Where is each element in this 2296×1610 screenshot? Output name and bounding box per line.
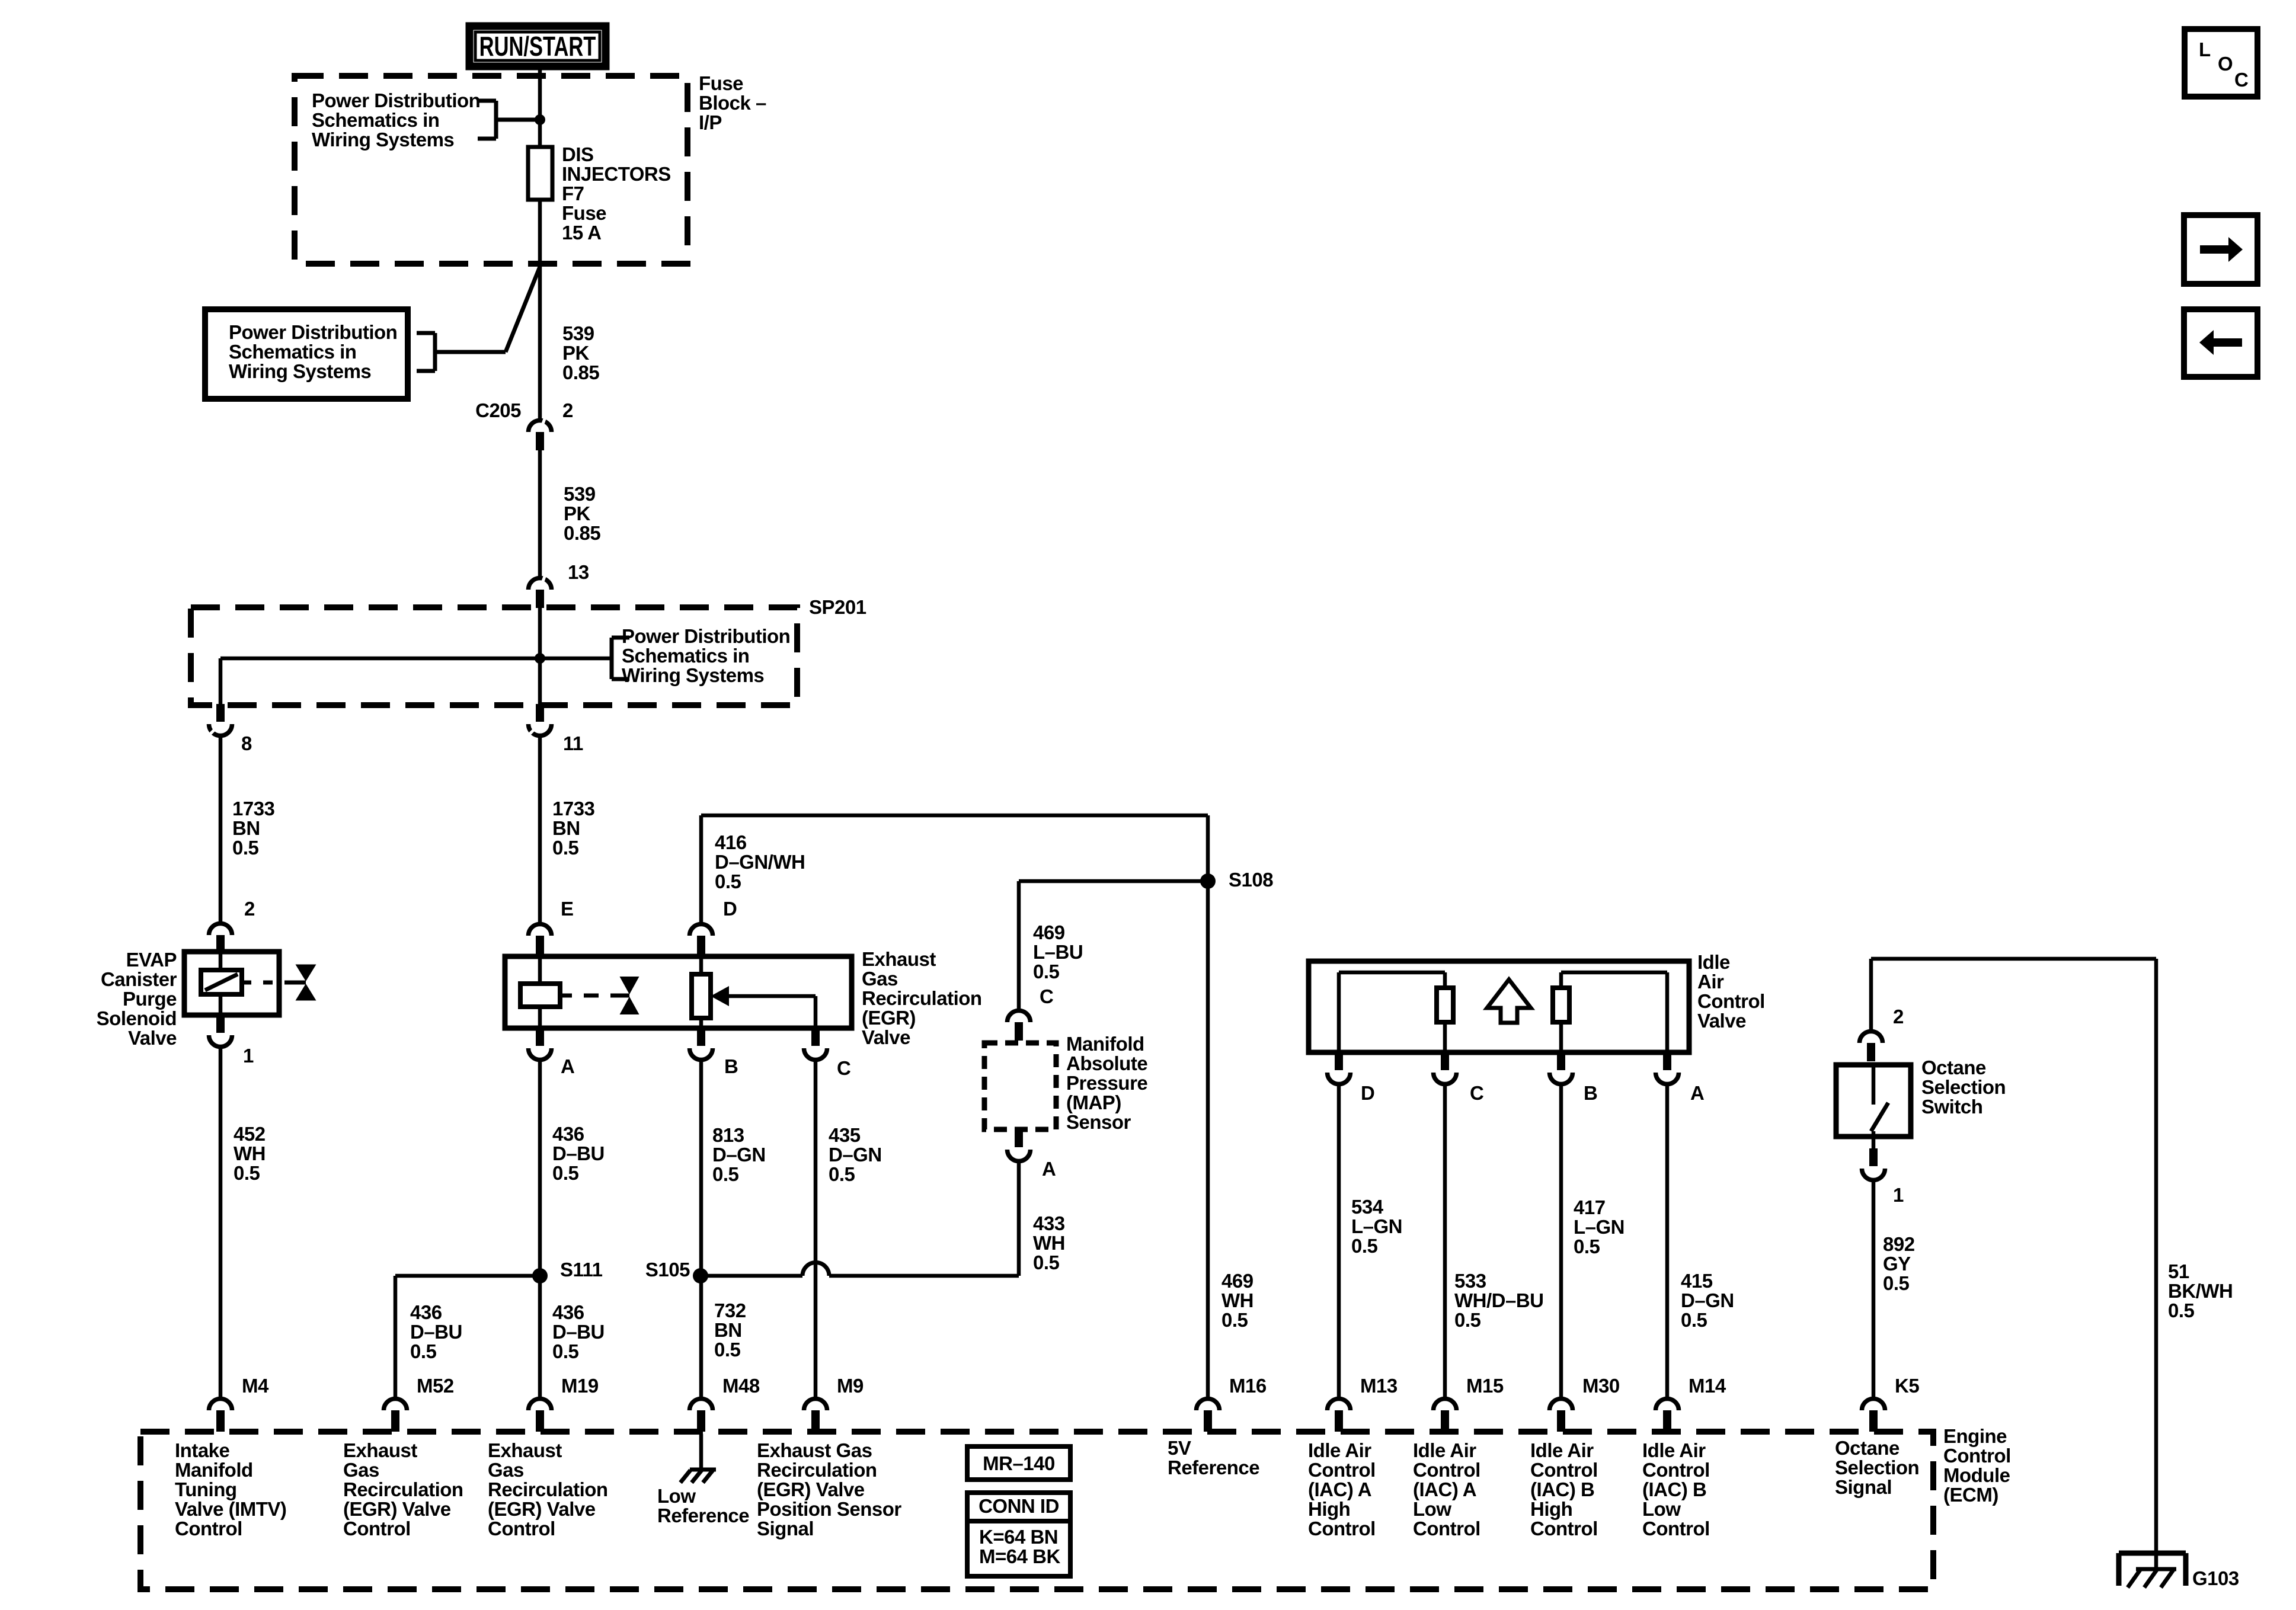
junction S111: [532, 1259, 603, 1283]
wire: circuit 415 D-GN (IAC A to M14): [1665, 1085, 1670, 1397]
svg-text:Canister: Canister: [101, 968, 177, 990]
svg-text:0.85: 0.85: [564, 522, 600, 544]
svg-text:0.5: 0.5: [1033, 1251, 1060, 1273]
ground G103: [2119, 1553, 2239, 1589]
svg-text:High: High: [1308, 1498, 1350, 1520]
svg-text:8: 8: [241, 732, 252, 754]
connector ECM pin M30: [1550, 1375, 1620, 1432]
svg-text:433: 433: [1033, 1212, 1065, 1234]
label: EVAP Canister Purge Solenoid Valve: [97, 949, 177, 1049]
label: circuit 416 D-GN/WH 0.5: [715, 831, 805, 892]
svg-text:Control: Control: [1413, 1459, 1480, 1481]
junction S108: [1200, 869, 1273, 891]
svg-text:(MAP): (MAP): [1066, 1092, 1121, 1113]
wire: circuit 469 L-BU (S108 to MAP C): [1019, 881, 1208, 1009]
wire: RUN/START to fuse F7: [538, 68, 542, 148]
svg-text:416: 416: [715, 831, 747, 853]
svg-text:Valve: Valve: [128, 1027, 177, 1049]
svg-text:D: D: [1361, 1082, 1374, 1104]
svg-text:PK: PK: [562, 342, 590, 364]
label: circuit 892 GY 0.5: [1883, 1233, 1915, 1294]
wire: EGR A continues to M19: [538, 1276, 542, 1397]
wire: circuit 1733 BN (right leg): [538, 737, 542, 922]
svg-text:Power Distribution: Power Distribution: [229, 321, 397, 343]
svg-text:539: 539: [564, 483, 596, 505]
svg-text:533: 533: [1454, 1270, 1486, 1292]
svg-text:732: 732: [714, 1299, 746, 1321]
svg-text:0.5: 0.5: [712, 1163, 739, 1185]
svg-text:Recirculation: Recirculation: [488, 1478, 608, 1500]
svg-text:0.5: 0.5: [1221, 1309, 1248, 1331]
svg-text:Low: Low: [1413, 1498, 1451, 1520]
label: IAC B High Control: [1530, 1439, 1598, 1539]
svg-text:0.5: 0.5: [715, 870, 741, 892]
EVAP valve symbol (hourglass): [242, 965, 316, 1001]
connector ECM pin M16: [1197, 1375, 1267, 1432]
svg-text:15 A: 15 A: [562, 222, 601, 244]
wire: circuit 469 WH (S108 to M16): [1206, 881, 1210, 1397]
svg-text:E: E: [561, 898, 574, 920]
svg-text:2: 2: [1893, 1006, 1904, 1028]
label: circuit 813 D-GN 0.5: [712, 1124, 766, 1185]
connector ECM pin M13: [1328, 1375, 1398, 1432]
svg-text:Exhaust: Exhaust: [862, 948, 936, 970]
note: Power Distribution Schematics (fuse block): [312, 89, 540, 151]
svg-text:INJECTORS: INJECTORS: [562, 163, 671, 185]
svg-text:Control: Control: [1308, 1459, 1376, 1481]
svg-text:K=64 BN: K=64 BN: [979, 1526, 1058, 1548]
connector MAP pin C: [1008, 985, 1054, 1041]
idle air control valve (component box): [1309, 961, 1689, 1052]
svg-text:1733: 1733: [552, 798, 595, 820]
connector SP201 pin 8: [209, 704, 252, 754]
svg-text:(IAC) B: (IAC) B: [1642, 1478, 1706, 1500]
svg-text:F7: F7: [562, 183, 584, 204]
IAC coil B (resistor): [1553, 972, 1667, 1052]
svg-text:SP201: SP201: [809, 596, 866, 618]
power feed tag RUN/START: [469, 26, 606, 66]
svg-text:K5: K5: [1895, 1375, 1919, 1397]
svg-text:Control: Control: [1530, 1459, 1598, 1481]
splice pack SP201 enclosure (dashed): [191, 607, 797, 705]
svg-text:DIS: DIS: [562, 143, 594, 165]
svg-text:452: 452: [234, 1123, 266, 1145]
svg-text:0.5: 0.5: [714, 1339, 741, 1361]
svg-text:WH/D–BU: WH/D–BU: [1454, 1289, 1544, 1311]
connector IAC pin A: [1656, 1052, 1705, 1104]
wire: circuit 533 WH/D-BU (IAC C to M15): [1443, 1085, 1447, 1397]
wire: circuit 417 L-GN (IAC B to M30): [1559, 1085, 1563, 1397]
svg-text:0.85: 0.85: [562, 361, 599, 383]
label: IAC A High Control: [1308, 1439, 1376, 1539]
svg-text:WH: WH: [1033, 1232, 1065, 1254]
svg-text:Power Distribution: Power Distribution: [622, 625, 790, 647]
label: Manifold Absolute Pressure (MAP) Sensor: [1066, 1033, 1147, 1133]
svg-text:0.5: 0.5: [232, 837, 259, 859]
svg-text:Idle Air: Idle Air: [1308, 1439, 1371, 1461]
svg-text:BN: BN: [714, 1319, 742, 1341]
svg-text:Signal: Signal: [1835, 1476, 1892, 1498]
svg-text:Idle Air: Idle Air: [1530, 1439, 1594, 1461]
svg-text:O: O: [2218, 53, 2233, 75]
ECM internal: low reference ground: [680, 1434, 716, 1483]
svg-text:Sensor: Sensor: [1066, 1111, 1131, 1133]
svg-text:Exhaust: Exhaust: [343, 1439, 417, 1461]
label: DIS INJECTORS F7 Fuse 15 A: [562, 143, 671, 244]
label: Intake Manifold Tuning Valve (IMTV) Control: [175, 1439, 286, 1539]
svg-text:Exhaust: Exhaust: [488, 1439, 562, 1461]
svg-text:Control: Control: [175, 1518, 242, 1539]
svg-text:436: 436: [552, 1123, 584, 1145]
svg-text:I/P: I/P: [699, 111, 722, 133]
svg-text:Idle Air: Idle Air: [1642, 1439, 1706, 1461]
svg-text:Control: Control: [1642, 1459, 1710, 1481]
wire: circuit 892 GY (octane to K5): [1872, 1181, 1876, 1397]
svg-text:(EGR): (EGR): [862, 1007, 916, 1029]
MAP sensor (dashed component box): [984, 1043, 1056, 1129]
connector pin 13 (fuse block to SP201): [529, 561, 589, 608]
svg-text:WH: WH: [1221, 1289, 1253, 1311]
svg-text:B: B: [724, 1055, 738, 1077]
wire: circuit 452 WH (EVAP to M4): [219, 1048, 223, 1397]
EVAP solenoid coil: [201, 953, 242, 1015]
svg-text:0.5: 0.5: [552, 837, 579, 859]
svg-text:1: 1: [243, 1045, 254, 1067]
svg-text:(EGR) Valve: (EGR) Valve: [343, 1498, 451, 1520]
svg-text:D–GN: D–GN: [829, 1144, 882, 1166]
svg-text:Schematics in: Schematics in: [312, 109, 439, 131]
svg-text:High: High: [1530, 1498, 1572, 1520]
connector EGR pin B: [690, 1028, 738, 1077]
svg-text:M14: M14: [1689, 1375, 1726, 1397]
label: circuit 732 BN 0.5: [714, 1299, 746, 1361]
wire: circuit 436 D-BU branch (S111 to M52): [395, 1276, 540, 1397]
EGR valve (component box): [505, 956, 852, 1028]
svg-text:C: C: [1470, 1082, 1483, 1104]
label: circuit 436 D-BU 0.5 (M19 leg): [552, 1301, 605, 1362]
svg-text:Wiring Systems: Wiring Systems: [312, 129, 454, 151]
label: circuit 435 D-GN 0.5: [829, 1124, 882, 1185]
svg-text:Power Distribution: Power Distribution: [312, 89, 480, 111]
svg-text:Low: Low: [657, 1485, 696, 1507]
engine control module ECM enclosure (dashed): [140, 1432, 1933, 1589]
wire: circuit 534 L-GN (IAC D to M13): [1337, 1085, 1341, 1397]
connector EGR pin E: [529, 898, 574, 954]
svg-text:A: A: [561, 1055, 574, 1077]
svg-text:S108: S108: [1229, 869, 1273, 891]
connector ECM pin M15: [1434, 1375, 1504, 1432]
svg-text:Reference: Reference: [1168, 1457, 1259, 1478]
svg-text:892: 892: [1883, 1233, 1915, 1255]
wire: circuit 416 D-GN/WH (D up and across): [701, 815, 1208, 922]
wire: fuse to C205: [538, 200, 542, 418]
svg-text:Recirculation: Recirculation: [343, 1478, 463, 1500]
svg-text:436: 436: [410, 1301, 442, 1323]
svg-text:Control: Control: [343, 1518, 411, 1539]
label: circuit 417 L-GN 0.5: [1574, 1196, 1625, 1257]
svg-text:Schematics in: Schematics in: [229, 341, 356, 363]
EGR solenoid coil: [520, 956, 560, 1028]
svg-text:GY: GY: [1883, 1253, 1911, 1275]
connector MAP pin A: [1008, 1129, 1056, 1180]
label: Octane Selection Signal: [1835, 1437, 1919, 1498]
label: circuit 1733 BN 0.5 (left): [232, 798, 275, 859]
svg-text:(EGR) Valve: (EGR) Valve: [488, 1498, 596, 1520]
wire: circuit 51 BK/WH (to G103): [2154, 959, 2159, 1553]
connector ECM pin M19: [529, 1375, 599, 1432]
wire: circuit 436 D-BU (EGR A to S111): [538, 1061, 542, 1276]
svg-text:D–BU: D–BU: [552, 1142, 605, 1164]
label: circuit 539 PK 0.85 (lower): [564, 483, 600, 544]
svg-text:Control: Control: [1413, 1518, 1480, 1539]
connector ECM pin M52: [384, 1375, 454, 1432]
svg-text:435: 435: [829, 1124, 861, 1146]
svg-text:(IAC) A: (IAC) A: [1308, 1478, 1371, 1500]
svg-text:L: L: [2199, 39, 2211, 60]
wire: circuit 435 D-GN (EGR C to M9): [814, 1061, 818, 1397]
svg-text:5V: 5V: [1168, 1437, 1191, 1459]
svg-text:RUN/START: RUN/START: [479, 31, 596, 62]
svg-text:BN: BN: [232, 817, 260, 839]
label: circuit 1733 BN 0.5 (right): [552, 798, 595, 859]
svg-text:Control: Control: [1308, 1518, 1376, 1539]
svg-text:Signal: Signal: [757, 1518, 814, 1539]
tag box MR-140: [967, 1446, 1070, 1480]
svg-text:M19: M19: [561, 1375, 599, 1397]
label: Fuse Block I/P: [699, 72, 766, 133]
svg-text:0.5: 0.5: [1574, 1235, 1600, 1257]
EGR position sensor (potentiometer): [692, 956, 711, 1028]
wire: circuit 813 D-GN (EGR B to S105): [699, 1061, 703, 1276]
svg-text:Recirculation: Recirculation: [757, 1459, 877, 1481]
svg-text:Octane: Octane: [1921, 1057, 1986, 1078]
svg-text:Gas: Gas: [343, 1459, 379, 1481]
svg-text:Valve (IMTV): Valve (IMTV): [175, 1498, 286, 1520]
svg-text:436: 436: [552, 1301, 584, 1323]
svg-text:PK: PK: [564, 502, 591, 524]
connector ECM pin M9: [804, 1375, 864, 1432]
svg-text:Block –: Block –: [699, 92, 766, 114]
svg-text:Pressure: Pressure: [1066, 1072, 1147, 1094]
wire: circuit 433 WH (MAP A to S105): [701, 1162, 1019, 1276]
connector EVAP pin 2: [209, 898, 255, 953]
svg-text:Fuse: Fuse: [562, 202, 606, 224]
svg-text:0.5: 0.5: [1681, 1309, 1707, 1331]
svg-text:D–GN/WH: D–GN/WH: [715, 851, 805, 873]
svg-text:B: B: [1584, 1082, 1597, 1104]
connector IAC pin D: [1328, 1052, 1375, 1104]
svg-text:0.5: 0.5: [829, 1163, 855, 1185]
IAC pintle arrow symbol: [1487, 980, 1531, 1023]
connector EGR pin C: [804, 1028, 851, 1079]
svg-text:M4: M4: [242, 1375, 269, 1397]
svg-text:1: 1: [1893, 1184, 1904, 1206]
svg-text:CONN ID: CONN ID: [978, 1495, 1059, 1517]
connector C205 pin 2: [475, 399, 573, 450]
svg-text:BN: BN: [552, 817, 580, 839]
label: EGR Valve Control (M52): [343, 1439, 463, 1539]
svg-text:0.5: 0.5: [1351, 1235, 1378, 1257]
svg-text:M52: M52: [417, 1375, 454, 1397]
label: circuit 436 D-BU 0.5 (M52 leg): [410, 1301, 462, 1362]
label: circuit 436 D-BU 0.5 (upper): [552, 1123, 605, 1184]
svg-text:Selection: Selection: [1921, 1076, 2006, 1098]
svg-text:EVAP: EVAP: [126, 949, 177, 971]
label: IAC B Low Control: [1642, 1439, 1710, 1539]
svg-text:415: 415: [1681, 1270, 1713, 1292]
wire: circuit 539 PK segment: [538, 450, 542, 576]
svg-text:Wiring Systems: Wiring Systems: [622, 664, 764, 686]
svg-text:Engine: Engine: [1943, 1425, 2007, 1447]
junction: SP201 bus tap: [535, 653, 545, 664]
svg-text:S111: S111: [560, 1259, 603, 1281]
svg-text:Module: Module: [1943, 1464, 2010, 1486]
connector octane switch pin 1: [1862, 1137, 1904, 1206]
svg-text:Idle: Idle: [1697, 951, 1730, 973]
tag box CONN ID: [967, 1493, 1070, 1576]
svg-text:D–BU: D–BU: [552, 1321, 605, 1343]
svg-text:0.5: 0.5: [552, 1340, 579, 1362]
label: circuit 534 L-GN 0.5: [1351, 1196, 1402, 1257]
label: circuit 452 WH 0.5: [234, 1123, 266, 1184]
svg-text:2: 2: [562, 399, 573, 421]
label: Octane Selection Switch: [1921, 1057, 2006, 1118]
svg-text:Switch: Switch: [1921, 1096, 1982, 1118]
label: Idle Air Control Valve: [1697, 951, 1765, 1032]
label: Low Reference: [657, 1485, 749, 1526]
connector octane switch pin 2: [1860, 1006, 1904, 1061]
svg-text:G103: G103: [2192, 1567, 2239, 1589]
label: 5V Reference: [1168, 1437, 1259, 1478]
svg-text:L–BU: L–BU: [1033, 941, 1083, 963]
svg-text:Intake: Intake: [175, 1439, 230, 1461]
svg-text:0.5: 0.5: [1033, 961, 1060, 982]
svg-text:0.5: 0.5: [1883, 1272, 1910, 1294]
svg-text:S105: S105: [645, 1259, 690, 1281]
svg-text:M30: M30: [1582, 1375, 1620, 1397]
svg-text:813: 813: [712, 1124, 744, 1146]
svg-text:417: 417: [1574, 1196, 1606, 1218]
svg-text:Reference: Reference: [657, 1505, 749, 1526]
svg-text:M48: M48: [722, 1375, 760, 1397]
svg-text:Position Sensor: Position Sensor: [757, 1498, 901, 1520]
svg-text:13: 13: [568, 561, 589, 583]
svg-text:469: 469: [1033, 921, 1065, 943]
IAC coil A (resistor): [1339, 972, 1453, 1052]
svg-text:L–GN: L–GN: [1574, 1216, 1625, 1238]
label: circuit 539 PK 0.85 (upper): [562, 322, 599, 383]
svg-text:Valve: Valve: [1697, 1010, 1746, 1032]
svg-text:D–BU: D–BU: [410, 1321, 462, 1343]
svg-text:51: 51: [2168, 1260, 2189, 1282]
EGR wiper arrow: [711, 986, 816, 1028]
connector SP201 pin 11: [529, 704, 584, 754]
wire hop over circuit 435: [802, 1263, 829, 1276]
junction: fuse block tap: [535, 114, 545, 125]
octane switch contact: [1871, 1065, 1888, 1137]
fuse block I/P enclosure (dashed): [295, 76, 687, 264]
EGR valve symbol (hourglass): [560, 977, 639, 1014]
label: circuit 533 WH/D-BU 0.5: [1454, 1270, 1544, 1331]
octane selection switch (component box): [1836, 1065, 1911, 1137]
svg-text:WH: WH: [234, 1142, 266, 1164]
svg-text:MR–140: MR–140: [983, 1452, 1055, 1474]
connector ECM pin M4: [209, 1375, 269, 1432]
svg-text:Exhaust Gas: Exhaust Gas: [757, 1439, 872, 1461]
svg-text:(IAC) A: (IAC) A: [1413, 1478, 1476, 1500]
page arrow left box: [2184, 309, 2257, 377]
connector ECM pin M48: [690, 1375, 760, 1432]
svg-text:Manifold: Manifold: [1066, 1033, 1144, 1055]
svg-text:L–GN: L–GN: [1351, 1215, 1402, 1237]
svg-text:Selection: Selection: [1835, 1457, 1919, 1478]
svg-text:A: A: [1690, 1082, 1704, 1104]
svg-text:Recirculation: Recirculation: [862, 987, 982, 1009]
svg-text:Absolute: Absolute: [1066, 1052, 1147, 1074]
wire: circuit 732 BN (S105 to M48): [699, 1276, 703, 1397]
svg-text:(EGR) Valve: (EGR) Valve: [757, 1478, 865, 1500]
svg-text:M9: M9: [837, 1375, 864, 1397]
svg-text:Solenoid: Solenoid: [97, 1007, 177, 1029]
svg-text:A: A: [1042, 1158, 1056, 1180]
label: circuit 469 WH 0.5: [1221, 1270, 1253, 1331]
svg-text:534: 534: [1351, 1196, 1384, 1218]
label: IAC A Low Control: [1413, 1439, 1480, 1539]
EVAP canister purge solenoid valve (component box): [184, 952, 279, 1015]
svg-text:(ECM): (ECM): [1943, 1484, 1998, 1506]
label: circuit 433 WH 0.5: [1033, 1212, 1065, 1273]
svg-text:C205: C205: [475, 399, 521, 421]
connector EVAP pin 1: [209, 1015, 254, 1067]
fuse F7 DIS INJECTORS 15 A: [528, 147, 552, 200]
label: Engine Control Module (ECM): [1943, 1425, 2011, 1506]
note box: Power Distribution Schematics (solid): [205, 309, 506, 399]
svg-text:Control: Control: [488, 1518, 555, 1539]
svg-text:(IAC) B: (IAC) B: [1530, 1478, 1594, 1500]
svg-text:Valve: Valve: [862, 1026, 910, 1048]
page arrow right box: [2184, 215, 2257, 284]
svg-text:2: 2: [244, 898, 255, 920]
svg-text:Manifold: Manifold: [175, 1459, 253, 1481]
svg-text:539: 539: [562, 322, 594, 344]
svg-text:1733: 1733: [232, 798, 275, 820]
svg-text:11: 11: [563, 732, 583, 754]
wire: octane switch to ground run: [1871, 959, 2156, 1029]
svg-text:Tuning: Tuning: [175, 1478, 237, 1500]
svg-text:M=64 BK: M=64 BK: [979, 1545, 1060, 1567]
svg-text:Low: Low: [1642, 1498, 1681, 1520]
label: Exhaust Gas Recirculation (EGR) Valve: [862, 948, 982, 1048]
connector EGR pin D: [690, 898, 737, 954]
svg-text:C: C: [837, 1057, 850, 1079]
svg-text:Purge: Purge: [123, 988, 177, 1010]
svg-text:0.5: 0.5: [234, 1162, 260, 1184]
lead: note box to wire (diagonal): [506, 267, 540, 352]
svg-text:Fuse: Fuse: [699, 72, 743, 94]
svg-text:0.5: 0.5: [2168, 1299, 2195, 1321]
wire: SP201 internal bus: [220, 608, 612, 705]
svg-text:Octane: Octane: [1835, 1437, 1900, 1459]
svg-text:Control: Control: [1642, 1518, 1710, 1539]
svg-text:Schematics in: Schematics in: [622, 645, 749, 667]
svg-text:C: C: [2234, 69, 2248, 91]
svg-text:0.5: 0.5: [552, 1162, 579, 1184]
svg-text:M15: M15: [1466, 1375, 1504, 1397]
junction S105: [645, 1259, 708, 1283]
label: circuit 415 D-GN 0.5: [1681, 1270, 1734, 1331]
svg-text:Wiring Systems: Wiring Systems: [229, 360, 371, 382]
connector IAC pin B: [1550, 1052, 1598, 1104]
